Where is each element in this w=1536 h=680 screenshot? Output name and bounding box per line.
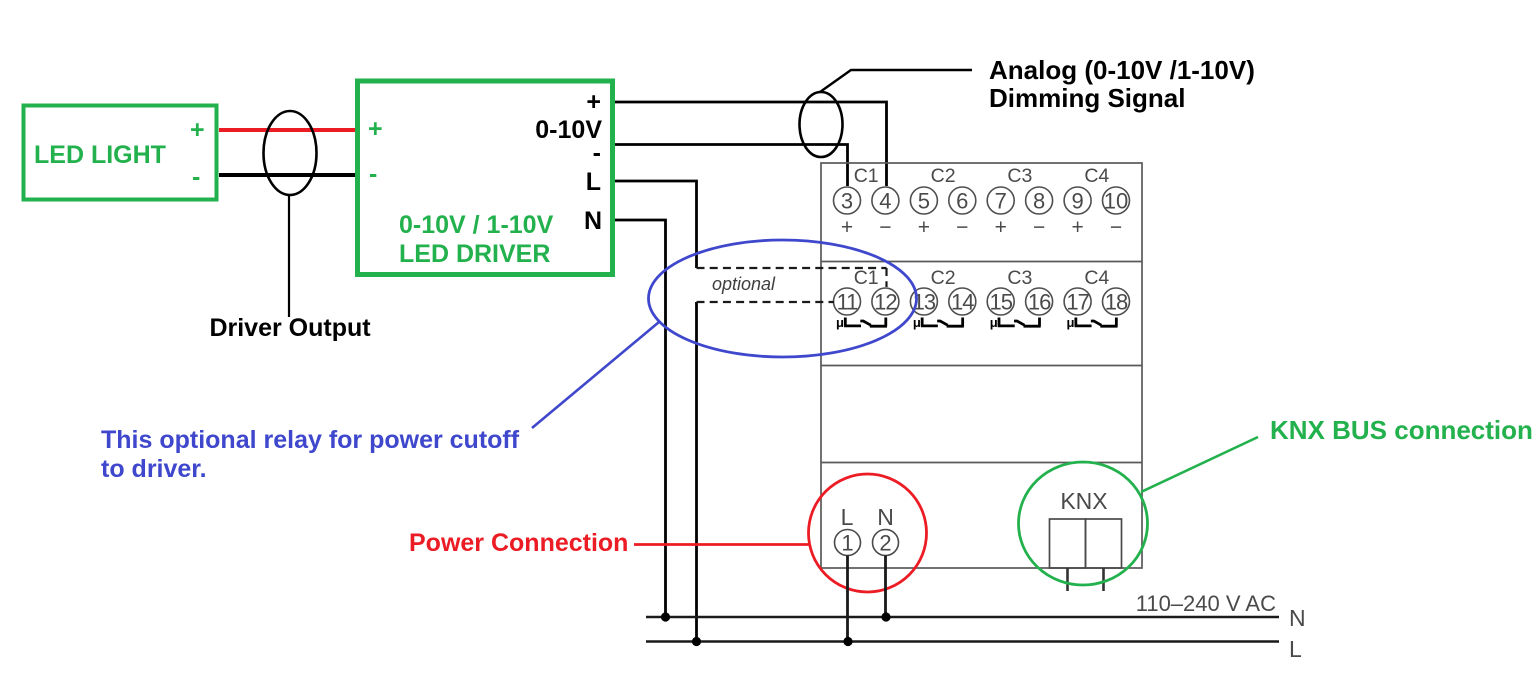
- svg-text:to driver.: to driver.: [101, 455, 207, 483]
- terminal 4: [872, 187, 899, 214]
- terminal 12: [872, 288, 899, 315]
- svg-text:LED LIGHT: LED LIGHT: [34, 141, 166, 169]
- svg-text:10: 10: [1104, 189, 1128, 214]
- svg-text:4: 4: [879, 189, 891, 214]
- relay contact C2 (terminals 13-14): [913, 315, 964, 330]
- svg-text:LED DRIVER: LED DRIVER: [399, 240, 550, 268]
- svg-text:N: N: [584, 207, 602, 235]
- wire 0-10V minus to terminal 3: [615, 145, 848, 187]
- terminal 15: [987, 288, 1014, 315]
- terminal 14: [949, 288, 976, 315]
- svg-text:−: −: [1110, 216, 1122, 239]
- svg-text:−: −: [879, 216, 891, 239]
- wire 0-10V plus to terminal 4: [615, 102, 887, 186]
- svg-text:optional: optional: [712, 274, 776, 294]
- svg-text:C1: C1: [854, 267, 879, 289]
- terminal 6: [949, 187, 976, 214]
- svg-text:-: -: [192, 163, 200, 191]
- power terminals L N: [835, 504, 899, 642]
- terminal 7: [987, 187, 1014, 214]
- svg-text:C3: C3: [1007, 165, 1032, 187]
- dimming cable ellipse: [800, 92, 843, 157]
- svg-text:This optional relay for power: This optional relay for power cutoff: [101, 426, 520, 454]
- terminal 1: [835, 530, 861, 556]
- svg-text:KNX BUS connection: KNX BUS connection: [1270, 415, 1533, 445]
- svg-text:9: 9: [1071, 189, 1083, 214]
- terminal 5: [910, 187, 937, 214]
- svg-text:Dimming Signal: Dimming Signal: [989, 83, 1185, 113]
- svg-text:L: L: [1289, 636, 1302, 662]
- svg-text:+: +: [586, 88, 601, 116]
- svg-text:+: +: [190, 116, 205, 144]
- green circle around KNX: [1019, 462, 1148, 585]
- svg-text:+: +: [918, 216, 930, 239]
- svg-text:Driver Output: Driver Output: [209, 314, 371, 342]
- svg-text:Power Connection: Power Connection: [409, 529, 628, 557]
- svg-text:−: −: [1033, 216, 1045, 239]
- svg-text:3: 3: [841, 189, 853, 214]
- terminal 17: [1064, 288, 1091, 315]
- svg-text:−: −: [956, 216, 968, 239]
- svg-text:C4: C4: [1084, 267, 1109, 289]
- LED DRIVER box U1: [358, 81, 613, 275]
- L bus line: [646, 640, 1279, 643]
- terminal 10: [1103, 187, 1130, 214]
- red leader: [634, 543, 809, 546]
- wire red + from LED LIGHT to driver: [219, 128, 356, 132]
- optional relay dashed wiring: [697, 268, 887, 302]
- svg-text:18: 18: [1105, 290, 1128, 315]
- svg-text:C2: C2: [931, 267, 956, 289]
- svg-text:μ: μ: [913, 315, 921, 330]
- wire black - from LED LIGHT to driver: [219, 173, 356, 177]
- relay contact C1 (terminals 11-12): [836, 315, 887, 330]
- wire terminal 2 to N bus: [884, 556, 887, 618]
- svg-text:C2: C2: [931, 165, 956, 187]
- svg-text:C3: C3: [1007, 267, 1032, 289]
- svg-text:2: 2: [879, 531, 891, 556]
- LED LIGHT box: [24, 106, 217, 200]
- svg-text:110–240 V AC: 110–240 V AC: [1136, 591, 1276, 616]
- callout line to Analog label: [820, 70, 972, 92]
- wire N from driver down to N bus: [615, 220, 666, 617]
- wire terminal 1 to L bus: [846, 556, 849, 642]
- svg-text:N: N: [1289, 605, 1306, 631]
- svg-text:11: 11: [837, 290, 859, 315]
- blue leader line: [532, 322, 659, 428]
- svg-text:+: +: [841, 216, 853, 239]
- terminal 9: [1064, 187, 1091, 214]
- svg-text:1: 1: [841, 531, 853, 556]
- svg-text:+: +: [1071, 216, 1083, 239]
- svg-text:6: 6: [956, 189, 968, 214]
- svg-text:μ: μ: [836, 315, 844, 330]
- svg-text:16: 16: [1028, 290, 1051, 315]
- terminal 18: [1103, 288, 1130, 315]
- junction dots: [661, 612, 891, 646]
- svg-text:0-10V / 1-10V: 0-10V / 1-10V: [399, 211, 554, 239]
- svg-text:+: +: [368, 115, 383, 143]
- wire L lower segment to L bus: [695, 302, 698, 642]
- row1 terminals will be injected here: [834, 165, 1130, 239]
- svg-text:Analog (0-10V /1-10V): Analog (0-10V /1-10V): [989, 55, 1255, 85]
- blue ellipse around optional relay: [649, 240, 917, 357]
- svg-text:-: -: [593, 139, 601, 167]
- svg-text:14: 14: [951, 290, 974, 315]
- svg-text:L: L: [586, 168, 601, 196]
- svg-text:N: N: [877, 504, 894, 530]
- svg-text:7: 7: [995, 189, 1007, 214]
- svg-text:5: 5: [918, 189, 930, 214]
- svg-text:μ: μ: [990, 315, 998, 330]
- svg-text:8: 8: [1033, 189, 1045, 214]
- N bus line: [646, 616, 1279, 619]
- svg-text:15: 15: [989, 290, 1012, 315]
- leader wire to Driver Output label: [288, 195, 290, 317]
- terminal 16: [1026, 288, 1053, 315]
- terminal 3: [834, 187, 861, 214]
- terminal 13: [910, 288, 937, 315]
- svg-text:C4: C4: [1084, 165, 1109, 187]
- svg-text:μ: μ: [1067, 315, 1075, 330]
- svg-text:-: -: [369, 160, 377, 188]
- svg-text:17: 17: [1066, 290, 1089, 315]
- cable ellipse (driver output): [264, 111, 317, 195]
- relay contact C3 (terminals 15-16): [990, 315, 1041, 330]
- terminal 11: [834, 288, 861, 315]
- green leader: [1141, 437, 1258, 492]
- terminal 2: [873, 530, 899, 556]
- svg-text:12: 12: [874, 290, 897, 315]
- wire L from driver down: [615, 181, 697, 268]
- relay contact C4 (terminals 17-18): [1067, 315, 1118, 330]
- svg-text:C1: C1: [854, 165, 879, 187]
- svg-text:+: +: [995, 216, 1007, 239]
- svg-text:KNX: KNX: [1060, 488, 1107, 514]
- svg-text:L: L: [841, 504, 854, 530]
- terminal 8: [1026, 187, 1053, 214]
- power connection circle (red): [809, 474, 927, 592]
- row2 terminals: [834, 267, 1130, 330]
- KNX connector: [1050, 488, 1122, 591]
- KNX actuator terminal block outline: [821, 163, 1142, 568]
